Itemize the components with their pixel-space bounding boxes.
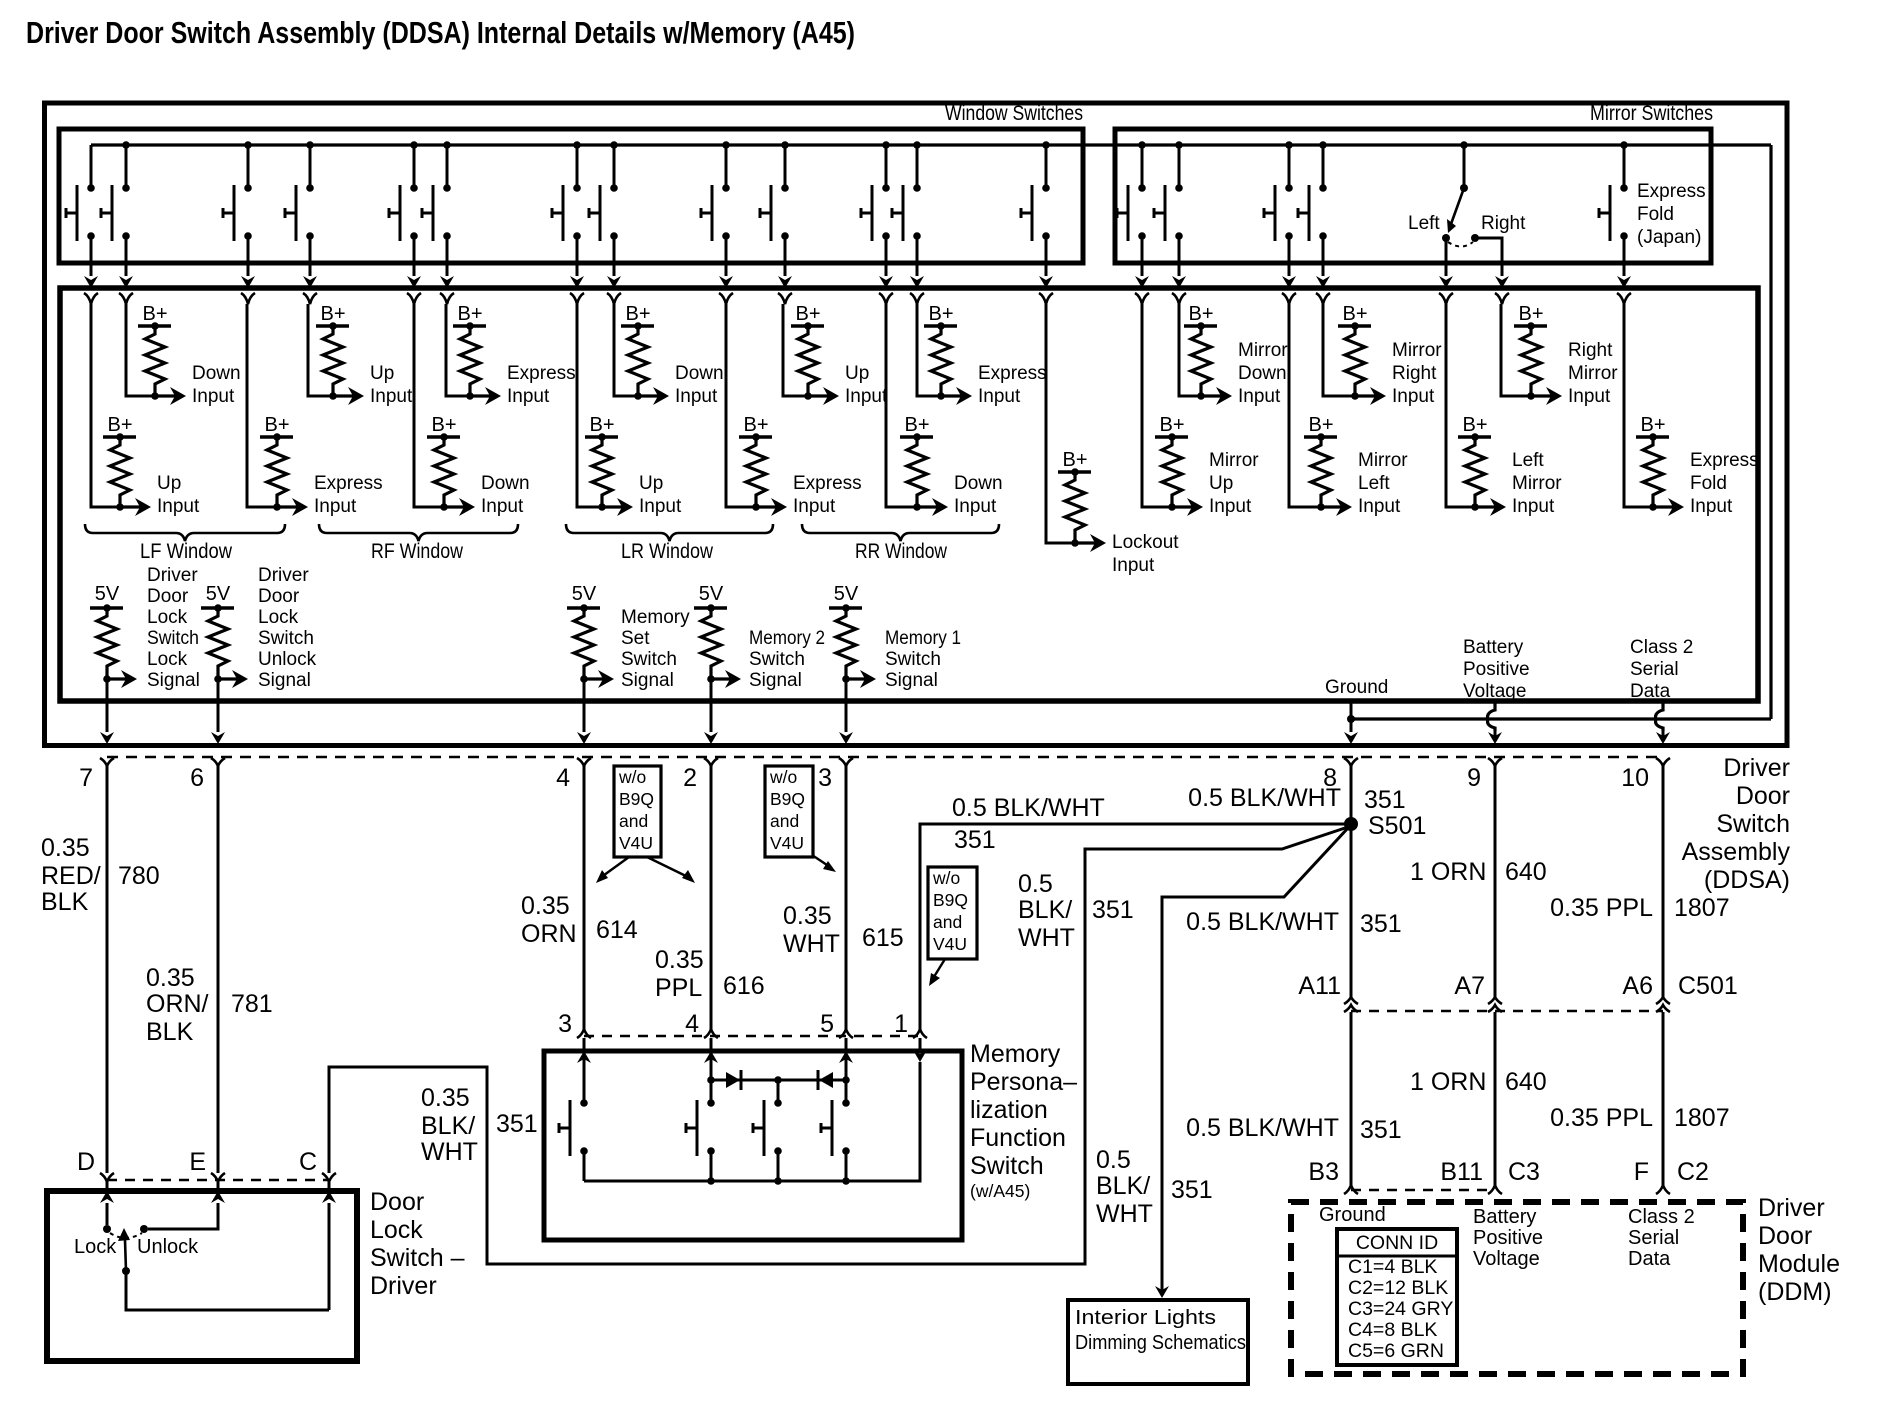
svg-text:B+: B+	[142, 303, 167, 325]
wire: pin 10 class 2 to A6	[1662, 766, 1665, 997]
svg-text:Input: Input	[1358, 496, 1401, 517]
svg-text:Express: Express	[507, 363, 576, 384]
connector C501 dashed line	[1351, 1010, 1663, 1012]
svg-text:Voltage: Voltage	[1473, 1248, 1540, 1270]
svg-text:C501: C501	[1678, 972, 1738, 1000]
svg-text:RF Window: RF Window	[371, 540, 464, 563]
svg-text:Lockout: Lockout	[1112, 532, 1179, 553]
wire: S501 to interior lights dimming (0.5 BLK/WHT 351)	[1162, 828, 1348, 1285]
input arrow: lockout	[1075, 541, 1100, 544]
wire: A6 to DDM C2	[1662, 1012, 1665, 1185]
svg-text:B9Q: B9Q	[933, 890, 968, 910]
option arrow to wire 614	[600, 857, 629, 878]
svg-text:V4U: V4U	[933, 934, 967, 954]
svg-text:WHT: WHT	[1096, 1200, 1153, 1228]
ground bus wire across switch boxes	[91, 143, 1771, 146]
svg-text:B9Q: B9Q	[770, 789, 805, 809]
svg-text:351: 351	[1092, 896, 1134, 924]
wire: LF window down input from switch	[126, 304, 155, 396]
svg-text:Signal: Signal	[258, 670, 311, 691]
svg-text:Left: Left	[1358, 473, 1390, 494]
svg-text:B+: B+	[1159, 414, 1184, 436]
svg-text:Signal: Signal	[621, 670, 674, 691]
input arrow: LF window express input	[277, 505, 302, 508]
svg-text:Persona–: Persona–	[970, 1068, 1077, 1096]
svg-text:S501: S501	[1368, 812, 1426, 840]
door lock connector dashed line	[107, 1179, 329, 1181]
svg-text:Driver: Driver	[147, 565, 198, 586]
door lock lever arc	[110, 1233, 142, 1238]
class 2 serial data pin wire with hop over ground return	[1656, 701, 1663, 731]
ground bus drop wire at right	[1769, 145, 1772, 719]
signal arrow: memory set switch signal	[584, 677, 608, 680]
wire: pin 7 to door lock D (0.35 RED/BLK 780)	[106, 766, 109, 1173]
input arrow: LR window down input	[638, 394, 663, 397]
svg-text:Down: Down	[192, 363, 241, 384]
mirror switch M4 (mirror right sw)	[1319, 141, 1327, 149]
svg-text:Fold: Fold	[1637, 204, 1674, 225]
wire: pin 2 to memory 2 switch (0.35 PPL 616)	[710, 766, 713, 1029]
svg-text:B+: B+	[795, 303, 820, 325]
option arrow to wire 615	[812, 855, 830, 867]
battery positive pin wire with hop over ground return	[1488, 701, 1495, 731]
svg-text:Lock: Lock	[370, 1216, 423, 1244]
memory switch 3 wire from diode bus	[774, 1076, 782, 1084]
wire: RR window express input from switch	[917, 304, 941, 396]
svg-text:5V: 5V	[206, 583, 231, 605]
wire: LF window express input from switch	[247, 304, 277, 507]
switch S1 (LF up sw)	[90, 145, 93, 188]
wire: memory 2 switch signal to connector pin	[710, 679, 713, 732]
w/o B9Q and V4U option box 3	[928, 867, 977, 959]
svg-text:Up: Up	[157, 473, 181, 494]
switch S3 (LF express sw)	[244, 141, 252, 149]
svg-text:Assembly: Assembly	[1682, 838, 1791, 866]
svg-text:780: 780	[118, 862, 160, 890]
svg-text:0.5 BLK/WHT: 0.5 BLK/WHT	[1188, 784, 1341, 812]
wire: mirror select right contact down	[1475, 238, 1502, 276]
svg-text:Input: Input	[1568, 386, 1611, 407]
DDM connector thin dashed line	[1351, 1189, 1495, 1191]
svg-text:Lock: Lock	[258, 607, 299, 628]
svg-text:B3: B3	[1308, 1158, 1339, 1186]
wire: A7 to DDM C3	[1494, 1012, 1497, 1185]
wire: RR window down input from switch	[886, 304, 917, 507]
switch S9 (LR express sw)	[722, 141, 730, 149]
svg-text:0.35: 0.35	[146, 964, 195, 992]
input arrow: left mirror input	[1475, 505, 1500, 508]
svg-text:Switch: Switch	[1716, 810, 1790, 838]
svg-text:Interior Lights: Interior Lights	[1075, 1307, 1216, 1329]
mirror switch M2 (mirror down sw)	[1175, 141, 1183, 149]
svg-text:Memory 2: Memory 2	[749, 628, 825, 649]
svg-text:0.5: 0.5	[1096, 1146, 1131, 1174]
wire: memory set switch signal to connector pin	[583, 679, 586, 732]
svg-text:PPL: PPL	[655, 974, 702, 1002]
svg-text:Up: Up	[1209, 473, 1233, 494]
svg-text:351: 351	[496, 1110, 538, 1138]
svg-text:Dimming Schematics: Dimming Schematics	[1075, 1332, 1246, 1354]
svg-text:and: and	[770, 811, 799, 831]
svg-text:RED/: RED/	[41, 862, 101, 890]
svg-text:Set: Set	[621, 628, 650, 649]
svg-text:B+: B+	[1640, 414, 1665, 436]
svg-text:F: F	[1634, 1158, 1649, 1186]
svg-text:Memory 1: Memory 1	[885, 628, 961, 649]
memory connector pin 3	[577, 1029, 591, 1038]
option arrow to wire 351	[932, 959, 945, 980]
svg-text:BLK/: BLK/	[1096, 1172, 1150, 1200]
mirror switches box	[1115, 129, 1711, 263]
svg-text:C1=4 BLK: C1=4 BLK	[1348, 1256, 1437, 1278]
svg-text:ORN/: ORN/	[146, 990, 209, 1018]
door lock lever	[125, 1240, 126, 1271]
svg-text:B+: B+	[431, 414, 456, 436]
memory pushbutton switch 1 (set)	[580, 1099, 588, 1107]
wire: RF window down input from switch	[414, 304, 444, 507]
C501 terminal A7	[1488, 997, 1502, 1004]
svg-text:LR Window: LR Window	[621, 540, 714, 563]
svg-text:(w/A45): (w/A45)	[970, 1181, 1030, 1201]
svg-text:Input: Input	[1209, 496, 1252, 517]
wire: LF window up input from switch	[91, 304, 120, 507]
svg-text:781: 781	[231, 990, 273, 1018]
svg-text:0.35: 0.35	[655, 946, 704, 974]
svg-text:Lock: Lock	[74, 1236, 117, 1258]
wire: left mirror input from switch	[1446, 304, 1475, 507]
svg-text:Input: Input	[793, 496, 836, 517]
DDSA pin 2 connector	[704, 758, 718, 766]
svg-text:B11: B11	[1440, 1158, 1483, 1186]
mirror switch M3 (mirror left sw)	[1285, 141, 1293, 149]
memory switch common bus wire	[584, 1062, 920, 1181]
svg-text:D: D	[77, 1148, 95, 1176]
svg-text:B+: B+	[107, 414, 132, 436]
svg-text:Mirror: Mirror	[1358, 450, 1408, 471]
svg-text:Driver: Driver	[1758, 1194, 1825, 1222]
DDSA pin 10 connector	[1656, 758, 1670, 766]
svg-text:Input: Input	[481, 496, 524, 517]
input arrow: LF window up input	[120, 505, 145, 508]
svg-text:A7: A7	[1454, 972, 1485, 1000]
svg-text:Input: Input	[845, 386, 888, 407]
svg-text:Ground: Ground	[1325, 677, 1388, 698]
svg-text:Express: Express	[1690, 450, 1759, 471]
svg-text:Serial: Serial	[1630, 659, 1679, 680]
svg-text:Mirror: Mirror	[1512, 473, 1562, 494]
svg-text:Right: Right	[1392, 363, 1437, 384]
svg-text:Input: Input	[954, 496, 997, 517]
switch S11 (RR up sw)	[882, 141, 890, 149]
memory switch 2 wire from pin 4	[710, 1055, 713, 1080]
svg-text:WHT: WHT	[421, 1138, 478, 1166]
ground pin wire with junction	[1350, 701, 1353, 732]
svg-text:351: 351	[1364, 786, 1406, 814]
svg-text:Up: Up	[370, 363, 394, 384]
svg-text:0.5 BLK/WHT: 0.5 BLK/WHT	[1186, 908, 1339, 936]
switch S4 (RF down sw)	[306, 141, 314, 149]
svg-text:1: 1	[894, 1010, 908, 1038]
switch S8 (LR down sw)	[610, 141, 618, 149]
input arrow: mirror up input	[1172, 505, 1197, 508]
input arrow: mirror left input	[1321, 505, 1346, 508]
svg-text:B+: B+	[1188, 303, 1213, 325]
svg-text:Input: Input	[507, 386, 550, 407]
diode D2	[817, 1070, 820, 1090]
wire: mirror select left contact down	[1445, 238, 1448, 276]
svg-text:Input: Input	[1238, 386, 1281, 407]
svg-text:640: 640	[1505, 858, 1547, 886]
svg-text:Switch: Switch	[970, 1152, 1044, 1180]
input arrow: mirror down input	[1201, 394, 1226, 397]
svg-text:Down: Down	[954, 473, 1003, 494]
svg-text:C3=24 GRY: C3=24 GRY	[1348, 1298, 1453, 1320]
svg-text:0.5: 0.5	[1018, 870, 1053, 898]
svg-text:Lock: Lock	[147, 649, 188, 670]
svg-text:Memory: Memory	[621, 607, 690, 628]
svg-text:(DDSA): (DDSA)	[1704, 866, 1790, 894]
svg-text:Input: Input	[157, 496, 200, 517]
svg-text:5: 5	[820, 1010, 834, 1038]
memory switch 1 (set) wire from pin 3	[583, 1055, 586, 1103]
signal arrow: memory 2 switch signal	[711, 677, 735, 680]
svg-text:Right: Right	[1568, 340, 1613, 361]
svg-text:614: 614	[596, 916, 638, 944]
svg-text:B+: B+	[904, 414, 929, 436]
svg-text:Mirror Switches: Mirror Switches	[1590, 102, 1713, 125]
memory pushbutton switch 3	[774, 1099, 782, 1107]
svg-text:B+: B+	[1518, 303, 1543, 325]
svg-text:B+: B+	[320, 303, 345, 325]
svg-text:Memory: Memory	[970, 1040, 1061, 1068]
input arrow: RR window down input	[917, 505, 942, 508]
svg-text:0.35 PPL: 0.35 PPL	[1550, 1104, 1653, 1132]
svg-text:Switch: Switch	[885, 649, 941, 670]
wire: right mirror input from switch	[1501, 304, 1531, 396]
svg-text:5V: 5V	[699, 583, 724, 605]
wire: mirror right input from switch	[1323, 304, 1355, 396]
C501 terminal A6	[1656, 997, 1670, 1004]
option arrow to wire 616	[647, 857, 690, 878]
svg-text:Input: Input	[978, 386, 1021, 407]
svg-text:BLK: BLK	[41, 888, 89, 916]
diode bus wire	[711, 1079, 846, 1082]
svg-text:1 ORN: 1 ORN	[1410, 858, 1486, 886]
DDSA pin 6 connector	[211, 758, 225, 766]
svg-text:Class 2: Class 2	[1630, 637, 1693, 658]
input arrow: mirror right input	[1355, 394, 1380, 397]
svg-text:lization: lization	[970, 1096, 1048, 1124]
svg-text:Door: Door	[370, 1188, 424, 1216]
svg-text:C3: C3	[1508, 1158, 1540, 1186]
svg-text:C5=6 GRN: C5=6 GRN	[1348, 1340, 1444, 1362]
svg-text:Window Switches: Window Switches	[945, 102, 1083, 125]
svg-text:CONN ID: CONN ID	[1356, 1232, 1438, 1254]
door lock D entry arrow to lock contact	[100, 1191, 114, 1203]
DDSA connector dashed line	[107, 756, 1663, 759]
svg-text:Down: Down	[1238, 363, 1287, 384]
interior lights dimming schematics box	[1068, 1300, 1248, 1384]
wire: pin 9 battery positive to A7	[1494, 766, 1497, 997]
wire: LR window express input from switch	[726, 304, 756, 507]
svg-text:Express: Express	[314, 473, 383, 494]
input arrow: LF window down input	[155, 394, 180, 397]
svg-text:0.5 BLK/WHT: 0.5 BLK/WHT	[1186, 1114, 1339, 1142]
DDM terminal B11	[1488, 1185, 1502, 1194]
svg-text:LF Window: LF Window	[140, 540, 233, 563]
svg-text:Switch –: Switch –	[370, 1244, 465, 1272]
svg-text:4: 4	[685, 1010, 699, 1038]
wire: mirror up input from switch	[1142, 304, 1172, 507]
DDSA pin 3 connector	[839, 758, 853, 766]
svg-text:351: 351	[1360, 1116, 1402, 1144]
mirror switch M1 (mirror up sw)	[1138, 141, 1146, 149]
brace: LF Window group	[85, 524, 285, 541]
mirror switch M5 (express fold sw (Japan))	[1620, 141, 1628, 149]
svg-text:9: 9	[1467, 764, 1481, 792]
svg-text:B+: B+	[1308, 414, 1333, 436]
svg-text:Down: Down	[675, 363, 724, 384]
svg-text:Module: Module	[1758, 1250, 1840, 1278]
svg-text:Ground: Ground	[1319, 1204, 1386, 1226]
svg-text:Driver: Driver	[1723, 754, 1790, 782]
svg-text:A6: A6	[1622, 972, 1653, 1000]
svg-text:Signal: Signal	[749, 670, 802, 691]
wire: driver door lock switch unlock signal to connector pin	[217, 679, 220, 732]
svg-text:BLK/: BLK/	[1018, 896, 1072, 924]
svg-text:Down: Down	[481, 473, 530, 494]
door lock terminal E	[211, 1173, 225, 1182]
svg-text:RR Window: RR Window	[855, 540, 948, 563]
svg-text:B+: B+	[625, 303, 650, 325]
wire: pin 8 ground to S501 to A11	[1350, 766, 1353, 997]
svg-text:Door: Door	[1758, 1222, 1812, 1250]
w/o B9Q and V4U option box 2	[765, 766, 813, 857]
svg-text:Mirror: Mirror	[1238, 340, 1288, 361]
svg-text:Input: Input	[1512, 496, 1555, 517]
switch S12 (RR express sw)	[913, 141, 921, 149]
svg-text:Input: Input	[675, 386, 718, 407]
svg-text:Signal: Signal	[885, 670, 938, 691]
svg-text:V4U: V4U	[770, 833, 804, 853]
svg-text:Input: Input	[370, 386, 413, 407]
svg-text:Input: Input	[1392, 386, 1435, 407]
memory connector pin 5	[839, 1029, 853, 1038]
svg-text:640: 640	[1505, 1068, 1547, 1096]
brace: RR Window group	[802, 524, 999, 541]
svg-text:Driver: Driver	[370, 1272, 437, 1300]
svg-text:w/o: w/o	[932, 868, 960, 888]
wire: A11 to DDM B3	[1350, 1012, 1353, 1185]
svg-text:Input: Input	[1690, 496, 1733, 517]
svg-text:615: 615	[862, 924, 904, 952]
svg-text:B+: B+	[928, 303, 953, 325]
wire: mirror down input from switch	[1179, 304, 1201, 396]
svg-text:1807: 1807	[1674, 1104, 1730, 1132]
svg-text:Unlock: Unlock	[137, 1236, 199, 1258]
mirror select switch Left/Right	[1460, 141, 1468, 149]
svg-text:Input: Input	[314, 496, 357, 517]
wire: RF window up input from switch	[308, 304, 333, 396]
ground return wire	[1352, 717, 1771, 720]
diode D1	[726, 1072, 740, 1088]
input arrow: RR window express input	[941, 394, 966, 397]
svg-text:WHT: WHT	[1018, 924, 1075, 952]
svg-text:Express: Express	[1637, 181, 1706, 202]
svg-text:Up: Up	[639, 473, 663, 494]
svg-text:0.35: 0.35	[421, 1084, 470, 1112]
input arrow: RF window up input	[333, 394, 358, 397]
svg-text:Switch: Switch	[749, 649, 805, 670]
wire: memory 1 switch signal to connector pin	[845, 679, 848, 732]
svg-text:Mirror: Mirror	[1209, 450, 1259, 471]
DDSA pin 8 connector	[1344, 758, 1358, 766]
input arrow: LR window express input	[756, 505, 781, 508]
svg-text:C4=8 BLK: C4=8 BLK	[1348, 1319, 1437, 1341]
svg-text:BLK: BLK	[146, 1018, 194, 1046]
DDSA pin 7 connector	[100, 758, 114, 766]
svg-text:3: 3	[818, 764, 832, 792]
svg-text:ORN: ORN	[521, 920, 577, 948]
door lock terminal D	[100, 1173, 114, 1182]
wire: door lock C to S501 (0.35 BLK/WHT 351)	[329, 827, 1348, 1264]
switch S2 (LF down sw)	[122, 141, 130, 149]
memory pushbutton switch 4	[842, 1099, 850, 1107]
svg-text:Signal: Signal	[147, 670, 200, 691]
wire: pin 4 to memory set switch (0.35 ORN 614)	[583, 766, 586, 1029]
svg-text:Switch: Switch	[258, 628, 314, 649]
input arrow: RR window up input	[808, 394, 833, 397]
svg-text:0.35 PPL: 0.35 PPL	[1550, 894, 1653, 922]
switch S13 (lockout sw)	[1042, 141, 1050, 149]
svg-text:Input: Input	[639, 496, 682, 517]
svg-text:Door: Door	[1736, 782, 1790, 810]
door lock common wire	[126, 1271, 329, 1310]
svg-text:0.5 BLK/WHT: 0.5 BLK/WHT	[952, 794, 1105, 822]
DDM terminal F	[1656, 1185, 1670, 1194]
svg-text:B+: B+	[589, 414, 614, 436]
wire: pin 3 to memory 1 switch (0.35 WHT 615)	[845, 766, 848, 1029]
door lock terminal C	[322, 1173, 336, 1182]
svg-text:5V: 5V	[95, 583, 120, 605]
splice S501	[1344, 817, 1358, 831]
svg-text:w/o: w/o	[618, 767, 646, 787]
svg-text:B+: B+	[1342, 303, 1367, 325]
w/o B9Q and V4U option box 1	[614, 766, 661, 857]
svg-text:0.35: 0.35	[521, 892, 570, 920]
svg-text:C2: C2	[1677, 1158, 1709, 1186]
signal arrow: memory 1 switch signal	[846, 677, 870, 680]
svg-text:(DDM): (DDM)	[1758, 1278, 1832, 1306]
wire: lockout from switch	[1046, 304, 1075, 543]
svg-text:351: 351	[1171, 1176, 1213, 1204]
brace: LR Window group	[566, 524, 773, 541]
svg-text:w/o: w/o	[769, 767, 797, 787]
svg-text:Positive: Positive	[1473, 1227, 1543, 1249]
wire: RF window express input from switch	[446, 304, 470, 396]
svg-text:WHT: WHT	[783, 930, 840, 958]
svg-text:Lock: Lock	[147, 607, 188, 628]
svg-text:Unlock: Unlock	[258, 649, 317, 670]
C501 terminal A11	[1344, 997, 1358, 1004]
svg-text:1807: 1807	[1674, 894, 1730, 922]
svg-text:Driver: Driver	[258, 565, 309, 586]
svg-text:Class 2: Class 2	[1628, 1206, 1695, 1228]
switch S5 (RF up sw)	[410, 141, 418, 149]
switch S6 (RF express sw)	[443, 141, 451, 149]
memory personalization function switch box	[544, 1051, 962, 1240]
svg-text:Battery: Battery	[1473, 1206, 1536, 1228]
